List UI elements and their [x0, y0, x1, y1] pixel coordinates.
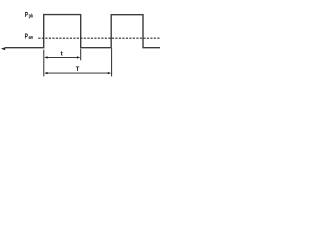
svg-text:av: av	[29, 35, 35, 41]
node Pav: dashed average-power level line	[38, 37, 160, 39]
svg-text:P: P	[25, 10, 28, 19]
dimension T: line with outward arrowheads	[47, 72, 110, 74]
extension line at pulse1 rising edge	[43, 50, 45, 77]
svg-text:T: T	[76, 66, 80, 73]
extension line at pulse2 rising edge	[111, 48, 113, 76]
axis arrowhead (left end of baseline)	[1, 47, 5, 50]
svg-text:pk: pk	[29, 13, 34, 19]
svg-text:P: P	[25, 32, 28, 41]
extension line at pulse1 falling edge	[80, 49, 82, 61]
wire: pulse waveform (baseline + two rectangular pulses)	[5, 15, 160, 48]
dimension t: line with outward arrowheads	[47, 56, 79, 58]
svg-text:t: t	[61, 50, 64, 57]
